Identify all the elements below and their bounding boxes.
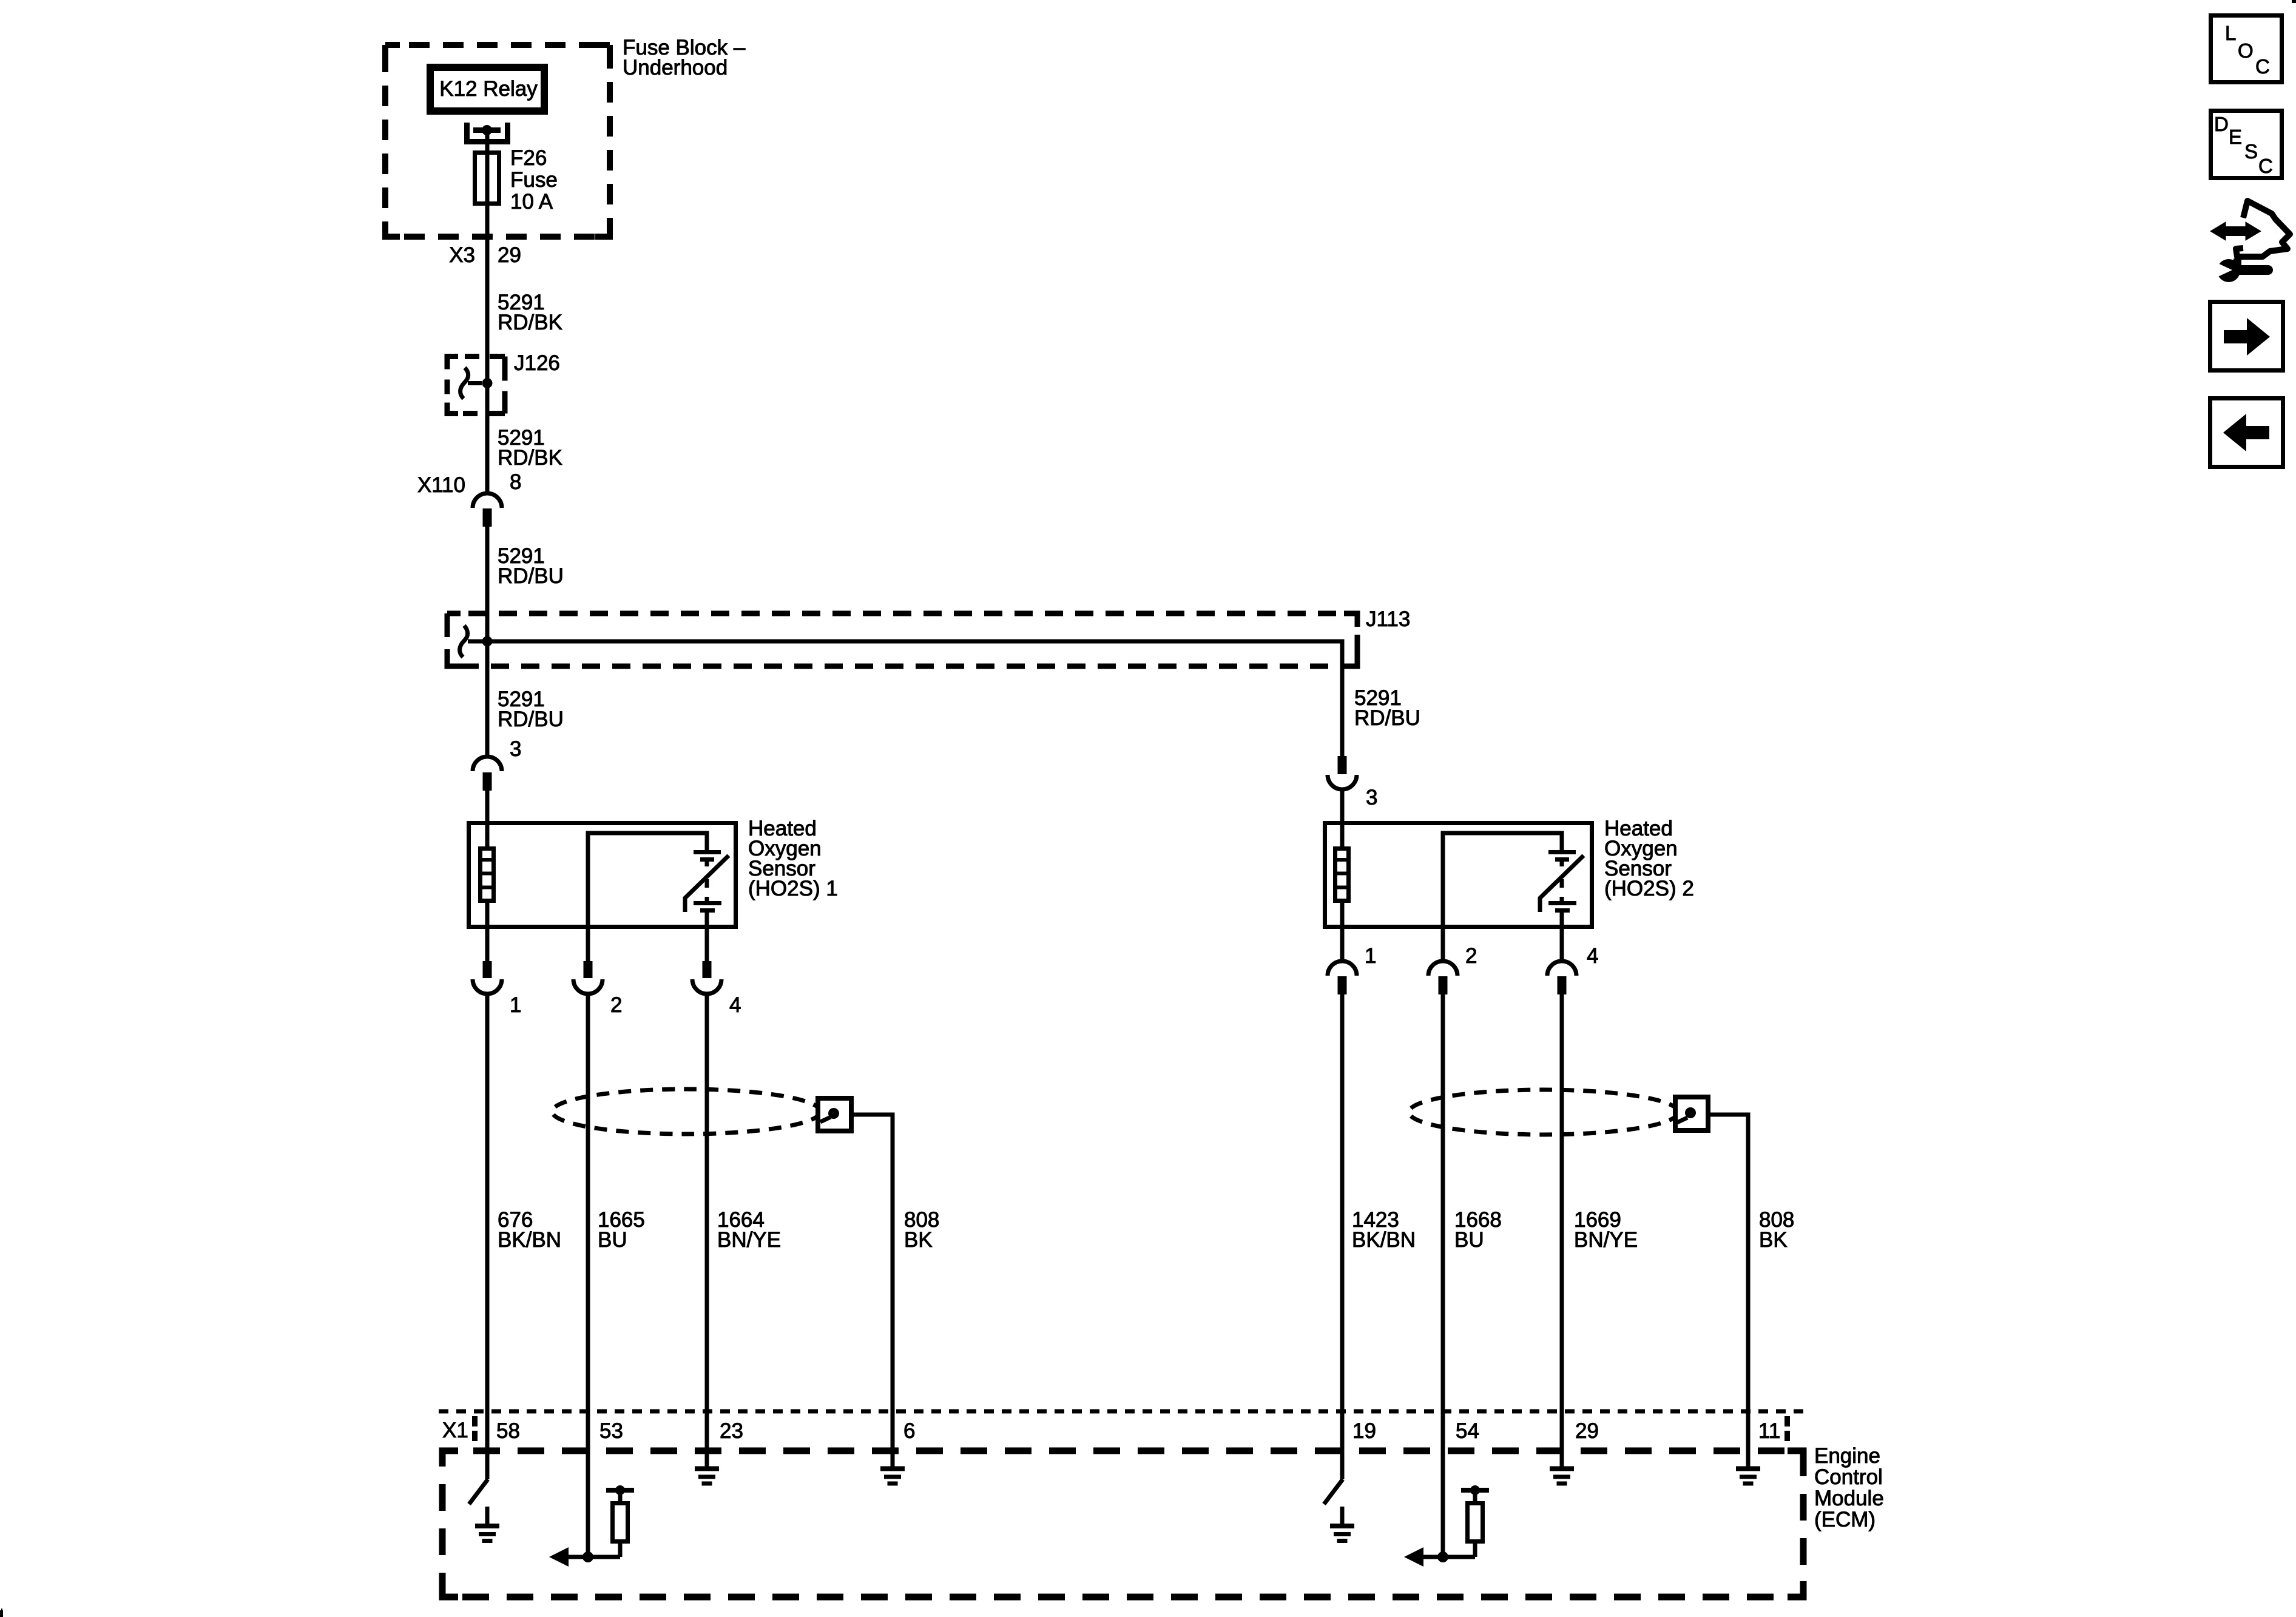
svg-text:D: D xyxy=(2214,113,2229,135)
HO2S1 pin 4 connector male-female xyxy=(692,929,721,994)
svg-text:C: C xyxy=(2255,55,2270,78)
wire label 5291 RD/BU right xyxy=(1354,686,1420,730)
svg-text:RD/BU: RD/BU xyxy=(498,564,564,588)
wire HO2S1 pin 2 internal xyxy=(588,833,707,929)
label F26 Fuse 10 A xyxy=(510,146,558,214)
svg-text:J113: J113 xyxy=(1366,607,1410,631)
icon LOC box xyxy=(2211,16,2282,83)
HO2S1 box xyxy=(469,823,736,927)
svg-text:1: 1 xyxy=(1365,944,1376,968)
svg-text:F26: F26 xyxy=(510,146,547,170)
wire label 5291 RD/BU xyxy=(498,544,564,588)
ECM connector dotted line xyxy=(439,1409,1806,1414)
wire label 808 BK right xyxy=(1759,1208,1794,1252)
splice J113 dashed box xyxy=(447,613,1357,666)
svg-text:58: 58 xyxy=(496,1419,520,1443)
svg-text:BK: BK xyxy=(904,1228,933,1252)
ECM label xyxy=(1814,1444,1884,1531)
wire 1423 BK/BN xyxy=(1340,994,1345,1479)
wire label 5291 RD/BK xyxy=(498,291,562,334)
relay K12 box xyxy=(430,67,544,111)
wire shield left to ECM pin 6 xyxy=(851,1115,893,1467)
shield terminal box right xyxy=(1675,1097,1708,1130)
connector HO2S1 pin 3 female-male xyxy=(473,757,502,791)
wire 1664 BN/YE xyxy=(705,994,709,1467)
svg-text:C: C xyxy=(2258,155,2273,177)
svg-text:Engine: Engine xyxy=(1814,1444,1880,1468)
wire label 1664 BN/YE xyxy=(717,1208,781,1252)
switch driver pin 58 xyxy=(469,1479,488,1504)
fuse block underhood dashed box xyxy=(385,45,610,237)
icon back arrow box xyxy=(2210,399,2283,467)
svg-text:53: 53 xyxy=(599,1419,623,1443)
svg-text:2: 2 xyxy=(610,993,622,1017)
svg-text:19: 19 xyxy=(1352,1419,1376,1443)
ground pin 6 xyxy=(880,1469,905,1484)
arrow to ground pin 54 xyxy=(1404,1547,1423,1567)
svg-text:BU: BU xyxy=(598,1228,627,1252)
svg-text:RD/BU: RD/BU xyxy=(498,707,564,731)
sensor cell HO2S1 xyxy=(685,852,729,930)
junction node pin 54 xyxy=(1437,1551,1448,1562)
wire label 676 BK/BN xyxy=(498,1208,561,1252)
shield ellipse right xyxy=(1409,1090,1678,1135)
svg-text:11: 11 xyxy=(1758,1419,1780,1443)
wire heater to HO2S1 pin 1 xyxy=(485,901,490,929)
svg-text:54: 54 xyxy=(1456,1419,1479,1443)
wire label 5291 RD/BK xyxy=(498,426,562,470)
wire into heater HO2S1 xyxy=(485,821,490,848)
svg-text:(HO2S) 1: (HO2S) 1 xyxy=(748,877,838,900)
HO2S1 pin 1 connector male-female xyxy=(473,929,502,994)
ground pin 11 xyxy=(1736,1469,1760,1484)
icon forward arrow box xyxy=(2210,302,2283,371)
HO2S2 pin 1 connector female-male xyxy=(1328,929,1357,994)
resistor internal pin 53 xyxy=(606,1485,634,1542)
fuse F26 10A xyxy=(475,153,499,204)
switch driver pin 19 xyxy=(1324,1479,1343,1504)
wire HO2S2 pin 2 internal xyxy=(1443,833,1562,929)
svg-text:K12 Relay: K12 Relay xyxy=(439,77,538,101)
svg-text:BN/YE: BN/YE xyxy=(1574,1228,1638,1252)
svg-text:E: E xyxy=(2229,126,2242,148)
icon DESC box xyxy=(2211,111,2282,178)
page artifact mark bottom left xyxy=(0,1609,3,1617)
svg-text:3: 3 xyxy=(510,737,521,761)
HO2S2 box xyxy=(1325,823,1592,927)
wire 1669 BN/YE xyxy=(1560,994,1564,1467)
wire 1668 BU xyxy=(1441,994,1445,1557)
wire pin3 to HO2S1 box xyxy=(485,791,490,823)
svg-text:O: O xyxy=(2238,39,2254,62)
svg-text:Control: Control xyxy=(1814,1465,1883,1489)
svg-text:BK/BN: BK/BN xyxy=(1352,1228,1416,1252)
wire label 5291 RD/BU left xyxy=(498,687,564,731)
connector X1 separator right xyxy=(1784,1416,1790,1442)
resistor internal pin 54 xyxy=(1461,1485,1489,1542)
label Heated Oxygen Sensor (HO2S) 2 xyxy=(1604,817,1694,900)
svg-text:L: L xyxy=(2225,22,2236,44)
splice J113 symbol xyxy=(460,626,493,657)
splice J126 box corners xyxy=(447,357,505,414)
svg-text:BN/YE: BN/YE xyxy=(717,1228,781,1252)
svg-text:8: 8 xyxy=(510,470,521,494)
ground pin 29 xyxy=(1550,1469,1574,1484)
junction node pin 53 xyxy=(582,1551,593,1562)
svg-text:BK/BN: BK/BN xyxy=(498,1228,561,1252)
shield ellipse left xyxy=(552,1089,820,1134)
icon vehicle double-arrow wrench xyxy=(2210,201,2290,282)
svg-text:4: 4 xyxy=(729,993,741,1017)
svg-text:X1: X1 xyxy=(442,1419,468,1442)
splice J113 box corners xyxy=(447,613,1357,666)
ground internal pin 19 xyxy=(1330,1507,1354,1541)
wire internal pin 53 xyxy=(567,1544,620,1557)
svg-text:6: 6 xyxy=(903,1419,915,1443)
svg-text:Underhood: Underhood xyxy=(623,56,728,79)
svg-text:X110: X110 xyxy=(417,473,465,497)
splice J126 dashed box xyxy=(447,357,505,414)
wire internal pin 54 xyxy=(1422,1544,1475,1557)
splice J126 symbol xyxy=(461,368,493,399)
wire shield right to ECM pin 11 xyxy=(1708,1115,1748,1467)
wire label 1668 BU xyxy=(1454,1208,1502,1252)
wire label 808 BK left xyxy=(904,1208,939,1252)
label Heated Oxygen Sensor (HO2S) 1 xyxy=(748,817,838,900)
svg-text:RD/BU: RD/BU xyxy=(1354,706,1420,730)
svg-text:10 A: 10 A xyxy=(510,190,553,214)
svg-text:(HO2S) 2: (HO2S) 2 xyxy=(1604,877,1694,900)
wire 1665 BU xyxy=(586,994,590,1557)
connector X110 female-male xyxy=(473,493,502,527)
label Fuse Block - Underhood xyxy=(623,36,746,79)
svg-text:4: 4 xyxy=(1587,944,1598,968)
svg-text:(ECM): (ECM) xyxy=(1814,1508,1876,1531)
page artifact mark top right xyxy=(2292,0,2296,3)
wire label 1669 BN/YE xyxy=(1574,1208,1638,1252)
svg-text:29: 29 xyxy=(498,243,521,267)
connector X1 separator left xyxy=(472,1416,478,1442)
svg-text:Fuse: Fuse xyxy=(510,168,558,192)
ground pin 23 xyxy=(695,1467,719,1484)
wire label 1423 BK/BN xyxy=(1352,1208,1416,1252)
relay K12 output pin bracket xyxy=(464,123,510,144)
sensor cell HO2S2 xyxy=(1540,852,1584,930)
svg-text:1: 1 xyxy=(510,993,521,1017)
connector HO2S2 pin 3 male-female xyxy=(1328,756,1357,789)
wire label 1665 BU xyxy=(598,1208,645,1252)
HO2S2 pin 2 connector female-male xyxy=(1428,929,1457,994)
svg-text:3: 3 xyxy=(1366,786,1377,809)
svg-text:BK: BK xyxy=(1759,1228,1788,1252)
HO2S1 pin 2 connector male-female xyxy=(573,929,603,994)
wire X110 to HO2S1 pin 3 xyxy=(485,527,490,757)
ECM box corners xyxy=(442,1451,1803,1597)
svg-text:S: S xyxy=(2244,140,2258,163)
HO2S2 pin 4 connector female-male xyxy=(1547,929,1576,994)
wire pin3 to HO2S2 box xyxy=(1340,789,1345,846)
svg-text:23: 23 xyxy=(720,1419,743,1443)
shield terminal box left xyxy=(818,1098,851,1131)
wire 676 BK/BN xyxy=(485,994,490,1479)
svg-text:29: 29 xyxy=(1575,1419,1599,1443)
ECM dashed box xyxy=(442,1451,1803,1597)
svg-text:2: 2 xyxy=(1465,944,1477,968)
svg-text:RD/BK: RD/BK xyxy=(498,446,562,470)
svg-text:RD/BK: RD/BK xyxy=(498,311,562,334)
ground internal pin 58 xyxy=(475,1507,499,1541)
heater element HO2S1 xyxy=(478,849,496,901)
fuse block box corners xyxy=(385,45,610,237)
svg-text:Module: Module xyxy=(1814,1487,1884,1510)
heater element HO2S2 xyxy=(1333,849,1351,901)
wire heater to HO2S2 pin 1 xyxy=(1340,901,1345,929)
svg-text:X3: X3 xyxy=(449,243,475,267)
svg-text:BU: BU xyxy=(1454,1228,1484,1252)
arrow to ground pin 53 xyxy=(549,1547,569,1567)
wire relay to X110 xyxy=(485,130,490,493)
svg-text:J126: J126 xyxy=(514,351,560,375)
wire J113 branch to HO2S2 xyxy=(468,641,1342,756)
